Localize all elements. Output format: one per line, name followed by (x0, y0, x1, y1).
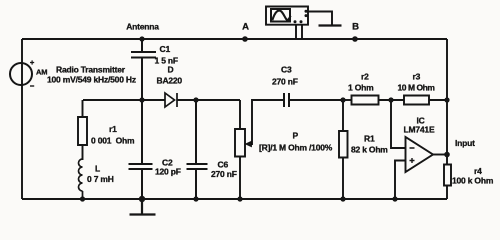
wire op-amp plus input (395, 161, 406, 200)
svg-text:Antenna: Antenna (126, 22, 159, 32)
junction dot C1/top (139, 36, 144, 41)
diode D BA220 (165, 93, 177, 107)
svg-text:100 mV/549 kHz/500 Hz: 100 mV/549 kHz/500 Hz (47, 75, 136, 85)
svg-text:r4: r4 (474, 166, 482, 176)
ground (130, 199, 156, 215)
scope ground bar (319, 24, 342, 26)
wire op-amp minus input (391, 100, 406, 148)
junction dot P/bottom (237, 196, 242, 201)
junction dot feedback/mid row (388, 97, 393, 102)
svg-text:100 k Ohm: 100 k Ohm (452, 176, 494, 186)
svg-text:R1: R1 (364, 134, 375, 144)
junction dot right column/mid row (444, 97, 449, 102)
svg-text:270 nF: 270 nF (272, 77, 298, 87)
svg-text:270 nF: 270 nF (211, 169, 237, 179)
junction dot op-amp output (444, 152, 450, 158)
resistor R1 (339, 100, 348, 199)
svg-text:Radio Transmitter: Radio Transmitter (56, 65, 126, 75)
capacitor C3 (284, 93, 343, 107)
wire scope probe stubs (296, 25, 302, 39)
svg-text:10 M Ohm: 10 M Ohm (398, 83, 436, 93)
svg-text:r1: r1 (109, 124, 117, 134)
svg-text:120 pF: 120 pF (155, 167, 181, 177)
junction dot R1/bottom (340, 196, 345, 201)
svg-text:r3: r3 (413, 72, 421, 82)
potentiometer P (235, 100, 245, 199)
junction dot L/bottom (80, 196, 85, 201)
junction dot C6/mid row (193, 97, 198, 102)
wire mid row right r2 (343, 99, 352, 101)
svg-text:1 Ohm: 1 Ohm (348, 83, 374, 93)
wire top horizontal (22, 38, 447, 40)
junction dot C1/mid row (139, 97, 144, 102)
source minus mark (30, 85, 34, 87)
svg-text:1 5 nF: 1 5 nF (155, 56, 178, 66)
capacitor C6 (187, 100, 208, 199)
svg-text:Input: Input (455, 138, 475, 148)
svg-text:BA220: BA220 (157, 76, 183, 86)
resistor r2 (352, 96, 405, 105)
junction dot C6/bottom (193, 196, 198, 201)
source V1 Radio Transmitter (10, 63, 32, 85)
svg-text:0 7 mH: 0 7 mH (87, 174, 114, 184)
svg-text:82 k Ohm: 82 k Ohm (351, 145, 388, 155)
svg-text:A: A (242, 22, 249, 33)
resistor r3 (404, 96, 447, 105)
svg-text:r2: r2 (361, 72, 369, 82)
capacitor C1 (131, 39, 156, 100)
svg-text:C6: C6 (218, 160, 229, 170)
junction dot ground/bottom (139, 196, 145, 202)
wire mid row left (83, 99, 165, 101)
resistor r1 (78, 100, 87, 160)
resistor r4 (444, 165, 451, 186)
svg-text:[R]/1 M Ohm /100%: [R]/1 M Ohm /100% (259, 143, 333, 153)
junction dot R1/mid row (340, 97, 345, 102)
wire right column lower (446, 186, 448, 200)
wire diode to pot (177, 99, 240, 101)
wire left column (21, 39, 23, 199)
svg-text:P: P (293, 131, 299, 141)
oscilloscope icon (266, 7, 308, 25)
wire right column upper (446, 39, 448, 165)
svg-text:B: B (352, 22, 359, 33)
svg-text:L: L (95, 164, 100, 174)
inductor L (79, 159, 83, 199)
junction dot op-amp plus/bottom (392, 196, 397, 201)
wire scope ground lead (308, 12, 332, 26)
svg-text:LM741E: LM741E (404, 125, 435, 135)
svg-text:C1: C1 (160, 44, 171, 54)
op-amp U1 LM741E (406, 137, 434, 172)
scope terminal dots (305, 10, 308, 13)
capacitor C2 (129, 100, 153, 199)
svg-text:0 001 Ohm: 0 001 Ohm (91, 136, 135, 146)
svg-text:AM: AM (36, 68, 47, 77)
node A (242, 36, 248, 42)
node B (352, 36, 358, 42)
wire op-amp output (433, 154, 447, 156)
wire bottom horizontal (22, 198, 447, 200)
svg-text:C3: C3 (281, 65, 292, 75)
source plus mark (30, 60, 34, 64)
wire wiper of P (248, 100, 284, 144)
svg-text:D: D (168, 65, 174, 75)
